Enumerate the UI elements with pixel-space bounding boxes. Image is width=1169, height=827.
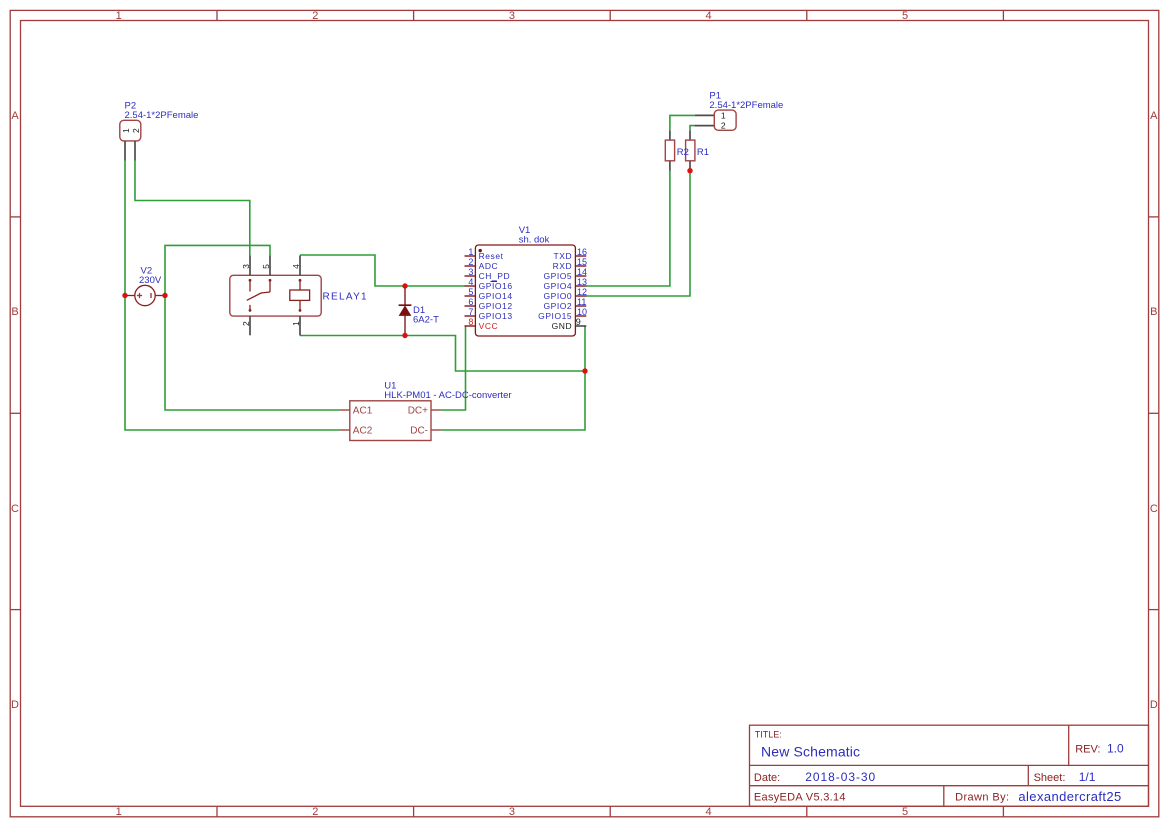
svg-text:6: 6	[468, 297, 473, 307]
svg-text:TITLE:: TITLE:	[755, 730, 782, 740]
svg-text:GPIO4: GPIO4	[543, 281, 572, 291]
svg-text:13: 13	[577, 277, 587, 287]
svg-text:3: 3	[509, 10, 515, 22]
svg-text:DC+: DC+	[408, 406, 428, 417]
svg-text:RXD: RXD	[553, 261, 573, 271]
svg-text:REV:: REV:	[1075, 744, 1100, 756]
svg-text:1: 1	[121, 128, 131, 133]
svg-text:3: 3	[241, 264, 251, 269]
svg-text:AC2: AC2	[353, 426, 373, 437]
svg-text:2: 2	[131, 128, 141, 133]
svg-text:4: 4	[291, 264, 301, 269]
svg-text:2: 2	[312, 10, 318, 22]
svg-text:1.0: 1.0	[1107, 742, 1124, 756]
svg-text:R2: R2	[677, 147, 689, 158]
svg-text:2.54-1*2PFemale: 2.54-1*2PFemale	[709, 100, 783, 111]
svg-text:9: 9	[576, 317, 581, 327]
svg-text:15: 15	[577, 257, 587, 267]
svg-text:14: 14	[577, 267, 587, 277]
svg-text:GPIO13: GPIO13	[479, 311, 513, 321]
svg-text:HLK-PM01 - AC-DC-converter: HLK-PM01 - AC-DC-converter	[384, 390, 511, 401]
svg-text:7: 7	[468, 307, 473, 317]
svg-text:2: 2	[721, 121, 726, 131]
svg-text:ADC: ADC	[479, 261, 499, 271]
svg-text:1: 1	[116, 10, 122, 22]
svg-text:2: 2	[312, 806, 318, 818]
svg-text:A: A	[11, 110, 19, 122]
svg-text:C: C	[1150, 503, 1158, 515]
svg-text:A: A	[1150, 110, 1158, 122]
svg-text:Drawn By:: Drawn By:	[955, 792, 1009, 804]
svg-text:4: 4	[705, 10, 711, 22]
svg-text:1: 1	[721, 111, 726, 121]
svg-text:1: 1	[291, 321, 301, 326]
svg-text:16: 16	[577, 247, 587, 257]
svg-text:1: 1	[468, 247, 473, 257]
svg-text:5: 5	[261, 264, 271, 269]
svg-text:TXD: TXD	[554, 251, 573, 261]
svg-text:EasyEDA V5.3.14: EasyEDA V5.3.14	[754, 792, 846, 804]
svg-text:GPIO0: GPIO0	[543, 291, 572, 301]
svg-text:GPIO14: GPIO14	[479, 291, 513, 301]
svg-text:230V: 230V	[139, 275, 162, 286]
svg-text:6A2-T: 6A2-T	[413, 315, 439, 326]
svg-text:4: 4	[468, 277, 473, 287]
svg-text:Sheet:: Sheet:	[1034, 772, 1066, 784]
svg-text:12: 12	[577, 287, 587, 297]
svg-text:VCC: VCC	[479, 321, 499, 331]
svg-text:AC1: AC1	[353, 406, 373, 417]
svg-text:New Schematic: New Schematic	[761, 744, 860, 760]
svg-text:5: 5	[468, 287, 473, 297]
svg-text:2018-03-30: 2018-03-30	[805, 770, 876, 784]
svg-text:GPIO2: GPIO2	[543, 301, 572, 311]
svg-text:R1: R1	[697, 147, 709, 158]
svg-text:Reset: Reset	[479, 251, 504, 261]
svg-text:2: 2	[241, 321, 251, 326]
svg-text:CH_PD: CH_PD	[479, 271, 511, 281]
svg-text:5: 5	[902, 806, 908, 818]
svg-text:1/1: 1/1	[1079, 770, 1096, 784]
svg-text:Date:: Date:	[754, 772, 780, 784]
svg-text:2: 2	[468, 257, 473, 267]
svg-text:3: 3	[468, 267, 473, 277]
svg-text:10: 10	[577, 307, 587, 317]
svg-text:GND: GND	[552, 321, 573, 331]
svg-text:5: 5	[902, 10, 908, 22]
svg-text:alexandercraft25: alexandercraft25	[1018, 789, 1121, 804]
svg-text:4: 4	[705, 806, 711, 818]
svg-text:8: 8	[468, 317, 473, 327]
svg-text:GPIO16: GPIO16	[479, 281, 513, 291]
svg-text:B: B	[1150, 306, 1157, 318]
svg-text:DC-: DC-	[410, 426, 428, 437]
svg-text:sh. dok: sh. dok	[519, 235, 550, 246]
svg-text:GPIO12: GPIO12	[479, 301, 513, 311]
svg-text:1: 1	[116, 806, 122, 818]
svg-text:RELAY1: RELAY1	[323, 292, 368, 303]
svg-text:D: D	[1150, 699, 1158, 711]
svg-text:B: B	[11, 306, 18, 318]
svg-text:GPIO15: GPIO15	[538, 311, 572, 321]
svg-text:11: 11	[577, 297, 586, 307]
svg-text:3: 3	[509, 806, 515, 818]
svg-text:C: C	[11, 503, 19, 515]
svg-text:D: D	[11, 699, 19, 711]
svg-text:2.54-1*2PFemale: 2.54-1*2PFemale	[125, 110, 199, 121]
svg-text:GPIO5: GPIO5	[543, 271, 572, 281]
